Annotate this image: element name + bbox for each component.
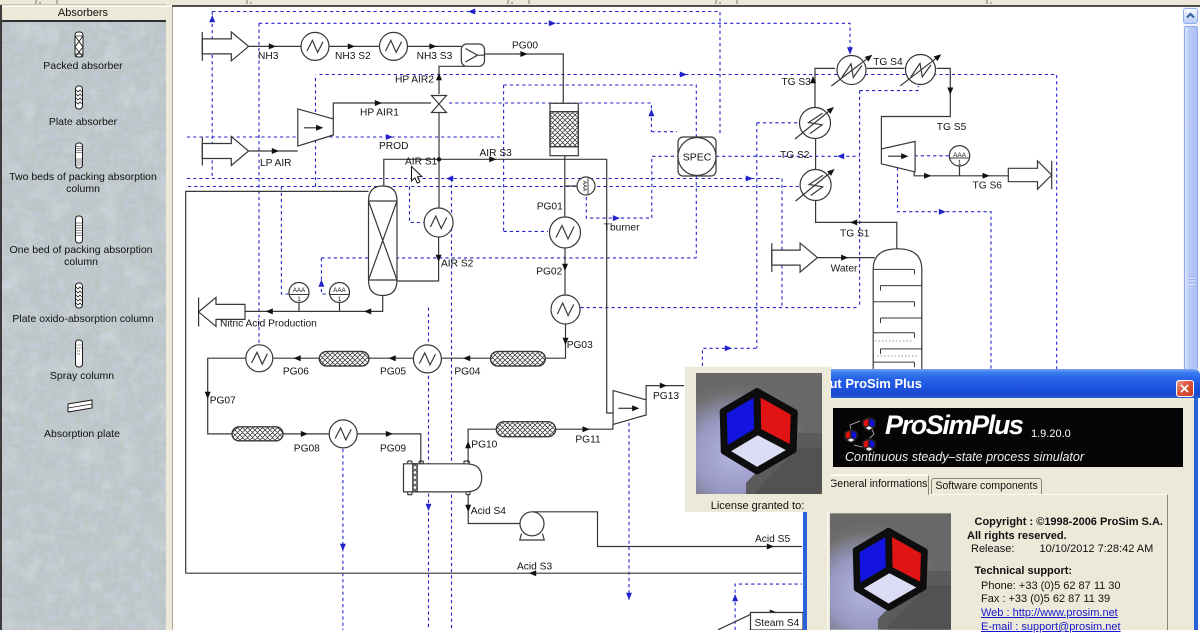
Absorbers header <box>0 7 166 22</box>
info long y74 <box>319 75 1056 370</box>
junction AIR S1 <box>437 157 441 161</box>
info net second top <box>259 23 850 54</box>
stream NH3 S2 <box>329 45 380 47</box>
thumb grip <box>1185 275 1199 289</box>
product arrow Nitric Acid <box>199 297 245 326</box>
info long y178 <box>187 178 782 180</box>
top toolbar remnant strip <box>0 0 1200 6</box>
icon one bed column <box>76 216 83 243</box>
heat exchanger NH3-2 <box>380 32 408 60</box>
stream TG S5 <box>881 68 950 148</box>
instrument stems <box>299 303 340 312</box>
instrument AAA-1 a <box>289 283 309 304</box>
heat exchanger PG06 <box>246 345 273 372</box>
svg-text:Absorption plate: Absorption plate <box>44 428 120 440</box>
heat exchanger AIR S2 <box>424 208 453 237</box>
info turbine instrument <box>915 155 950 157</box>
info instrument1 up <box>281 187 291 295</box>
info vert x503 <box>503 85 505 231</box>
stream PG07 <box>208 358 246 434</box>
info net vert left C <box>258 23 260 344</box>
about dialog window <box>803 369 1198 630</box>
info y307 <box>581 307 860 309</box>
info PG01 stub <box>504 230 548 232</box>
svg-text:Packed absorber: Packed absorber <box>43 60 123 72</box>
stream HP AIR2 <box>439 66 465 94</box>
stream PG05 <box>369 357 413 359</box>
icon absorption plate <box>68 400 92 412</box>
stream Acid S3 <box>186 572 802 574</box>
reactor burner vessel <box>550 103 578 155</box>
instrument TG S6 <box>949 146 969 167</box>
tab page logo <box>830 513 951 630</box>
info turbine down <box>898 168 992 370</box>
info spec-tgs2 <box>716 155 860 157</box>
splash window License granted <box>684 366 831 512</box>
black arrows <box>269 43 276 49</box>
stream PG03 <box>545 325 565 359</box>
info y90 stub <box>860 86 919 91</box>
stream PG11 <box>556 424 613 429</box>
stream PG00 <box>485 54 564 103</box>
feed arrow Water <box>772 243 818 272</box>
info compressor box <box>315 75 317 187</box>
faint sidebar top line <box>0 4 166 5</box>
plug reactor R1 <box>319 352 369 367</box>
SPEC module <box>678 137 716 176</box>
mixer M1 <box>461 44 484 66</box>
info vert x782 <box>781 179 783 308</box>
stream Water <box>817 257 874 259</box>
stream PG02 <box>564 248 566 295</box>
info vert x629 <box>628 423 630 601</box>
info vert x342 <box>342 449 344 630</box>
svg-text:column: column <box>64 256 98 268</box>
svg-text:Plate absorber: Plate absorber <box>49 116 118 128</box>
stream AIR S2 <box>397 237 439 281</box>
utility exchanger TG S2b <box>795 105 836 139</box>
distillation column <box>873 249 922 378</box>
scrollbar thumb <box>1184 26 1198 630</box>
palette/canvas divider <box>166 7 173 630</box>
mouse cursor <box>412 167 422 184</box>
stream TG S3 <box>815 68 835 107</box>
ProSimPlus wordmark <box>885 410 1023 441</box>
stream NH3 S3 <box>407 45 461 47</box>
info net vert left A <box>211 12 213 179</box>
stream TG S6 <box>914 171 1008 176</box>
stream PG08 <box>283 433 329 435</box>
product arrow TG S6 <box>1008 161 1051 189</box>
info line y137 <box>187 136 504 138</box>
banner mini cubes logo <box>840 412 886 456</box>
tagline <box>845 450 1084 464</box>
copyright text <box>975 516 1200 528</box>
feed arrow NH3 <box>202 32 248 61</box>
condenser shell-tube <box>404 461 482 495</box>
dialog blue frame <box>803 369 1200 398</box>
valve V1 <box>432 96 447 113</box>
compressor PG13 <box>613 391 646 425</box>
plug reactor R3 <box>232 427 283 441</box>
instrument AAA-1 b <box>330 283 350 304</box>
stream burner to PG01 <box>564 156 566 217</box>
window left dark edge <box>0 5 2 630</box>
stream PG09 <box>357 434 421 464</box>
heat exchanger PG09 <box>329 420 357 448</box>
dialog title text <box>804 376 1104 391</box>
heat exchanger NH3-1 <box>301 32 329 60</box>
textured background <box>0 22 166 630</box>
dark line under toolbar <box>172 5 1200 7</box>
info spec bottom <box>321 176 696 258</box>
close button <box>1176 380 1194 397</box>
vertical scrollbar <box>1183 7 1198 630</box>
icon plate absorber <box>76 86 83 109</box>
absorber column with cross <box>369 186 398 296</box>
info long y186 <box>188 186 799 188</box>
stream valve to AIR S1 junction <box>438 113 440 209</box>
stream column bottom product <box>245 296 383 311</box>
Steam S4 label box <box>751 613 804 631</box>
palette icons and labels <box>0 7 166 630</box>
instrument stem burner <box>565 185 577 187</box>
stream PG06 <box>273 357 319 359</box>
svg-text:Spray column: Spray column <box>50 370 114 382</box>
stream TG S3-S4 <box>867 67 905 69</box>
stream AIR S3 <box>439 159 613 413</box>
heat exchanger PG01 <box>550 217 581 248</box>
info vert x428 <box>428 308 430 630</box>
tab software components <box>931 478 1042 495</box>
stream HP AIR1 <box>333 103 431 119</box>
icon packed absorber <box>75 32 83 57</box>
left palette panel <box>0 7 166 630</box>
blue arrows <box>468 9 475 15</box>
splash logo <box>696 373 822 494</box>
info AIR S2 stub <box>410 187 425 223</box>
utility exchanger TG S4 <box>900 52 943 86</box>
info instrument2 up <box>321 258 329 294</box>
utility exchanger TG S3 <box>831 52 874 86</box>
svg-text:Two beds of packing absorption: Two beds of packing absorption <box>9 171 157 183</box>
instrument Tburner <box>577 177 595 195</box>
svg-text:One bed of packing absorption: One bed of packing absorption <box>9 244 152 256</box>
stream NH3 <box>249 45 301 47</box>
scrollbar up button <box>1183 8 1198 24</box>
feed arrow LP AIR <box>202 137 248 166</box>
black banner <box>833 408 1183 467</box>
icon two beds column <box>76 143 83 168</box>
stream Steam S4 <box>718 613 802 630</box>
stream Acid S5 <box>533 512 802 547</box>
info net top long <box>212 12 720 135</box>
stream Acid S4 <box>468 494 520 523</box>
heat exchanger PG04 <box>413 345 441 373</box>
stream acid recycle to column <box>186 191 369 573</box>
icon plate oxido column <box>76 283 83 308</box>
info Tburner <box>586 156 678 218</box>
info vert x451 <box>451 179 453 631</box>
plug reactor R4 <box>496 422 555 437</box>
plug reactor R2 <box>491 352 546 367</box>
dialog client area <box>807 398 1194 630</box>
stream PG13 out <box>646 386 684 400</box>
svg-text:column: column <box>66 183 100 195</box>
utility exchanger TG S2a <box>796 167 837 201</box>
license granted caption <box>685 500 830 512</box>
tab page panel <box>827 494 1168 631</box>
info steam corner <box>735 584 802 630</box>
instrument stem TG S6 <box>959 166 961 176</box>
stream LP AIR <box>249 150 298 152</box>
icon spray column <box>76 340 83 367</box>
info valve-spec <box>449 103 677 132</box>
stream TG S2 <box>815 139 817 169</box>
compressor K1 <box>298 109 334 146</box>
info vert x756 <box>757 123 799 348</box>
info spec top feed <box>504 85 697 137</box>
heat exchanger PG03 <box>551 295 580 324</box>
tab general informations (active) <box>827 474 929 495</box>
info splash-up <box>702 348 756 366</box>
turbine T1 <box>881 141 915 172</box>
pump P1 <box>520 512 544 540</box>
stream PROD riser <box>384 159 439 187</box>
svg-text:Plate oxido-absorption column: Plate oxido-absorption column <box>12 313 153 325</box>
stream PG04 <box>442 357 491 359</box>
version <box>1031 428 1071 440</box>
info vert x860 <box>859 91 861 308</box>
stream PG10 <box>468 429 496 463</box>
white right margin <box>1198 7 1200 630</box>
stream TG S1 <box>816 201 897 250</box>
